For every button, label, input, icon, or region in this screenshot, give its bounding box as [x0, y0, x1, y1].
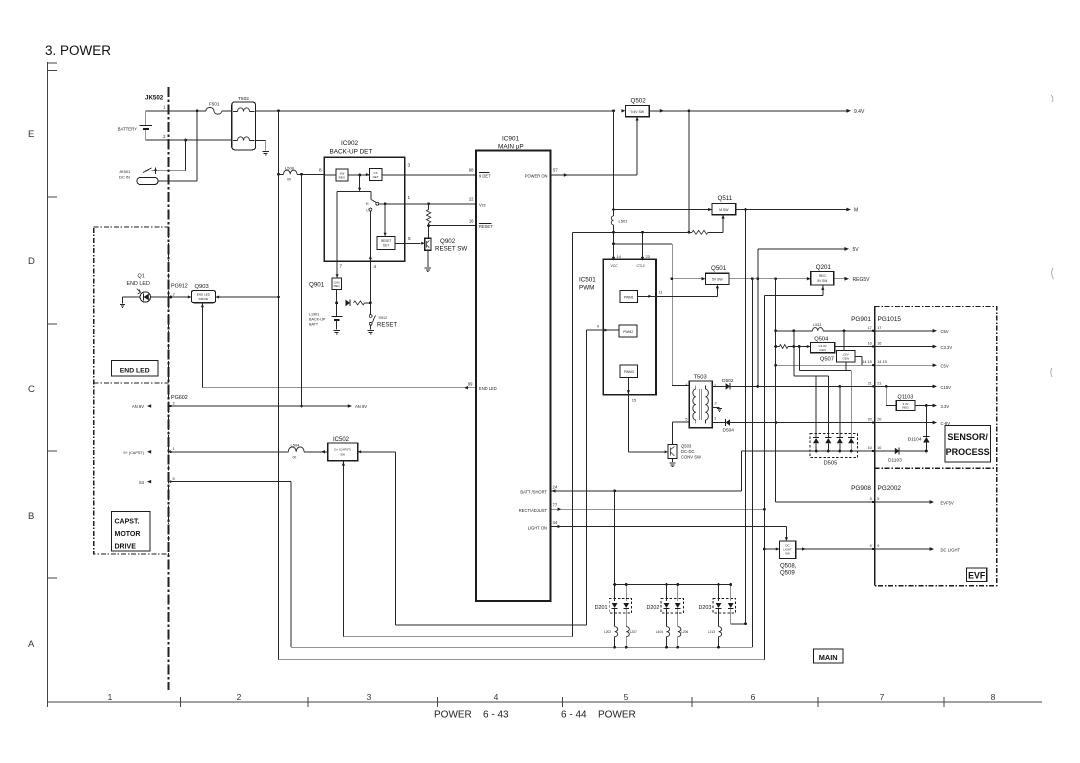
- svg-text:Q511: Q511: [718, 195, 733, 202]
- svg-text:DET: DET: [383, 244, 389, 248]
- svg-text:Q508,: Q508,: [780, 564, 797, 570]
- svg-text:SENSOR/: SENSOR/: [947, 432, 988, 442]
- svg-text:S4: S4: [139, 480, 145, 485]
- svg-text:9 DET: 9 DET: [479, 173, 491, 178]
- svg-text:D: D: [28, 256, 35, 267]
- svg-text:PWM1: PWM1: [624, 295, 634, 299]
- svg-text:1: 1: [108, 692, 113, 702]
- svg-text:5: 5: [173, 476, 175, 481]
- svg-text:2: 2: [715, 401, 717, 406]
- svg-text:EVF: EVF: [968, 571, 986, 581]
- svg-text:D202: D202: [647, 605, 660, 611]
- svg-text:10: 10: [868, 446, 872, 450]
- svg-text:C: C: [28, 384, 35, 395]
- svg-text:E: E: [28, 129, 34, 140]
- svg-text:BATTERY: BATTERY: [118, 127, 138, 132]
- svg-text:9.4V SW: 9.4V SW: [631, 110, 645, 114]
- svg-text:L511: L511: [813, 322, 822, 327]
- svg-text:5: 5: [685, 417, 687, 422]
- svg-text:PG912: PG912: [171, 284, 188, 290]
- svg-text:16: 16: [877, 342, 881, 346]
- svg-text:END LED: END LED: [197, 293, 211, 297]
- svg-text:00: 00: [287, 178, 291, 182]
- svg-text:END LED: END LED: [127, 281, 150, 287]
- svg-text:MOTOR: MOTOR: [115, 531, 141, 538]
- svg-text:5: 5: [624, 692, 629, 702]
- svg-text:PG1015: PG1015: [878, 316, 902, 323]
- svg-text:JK501: JK501: [119, 169, 131, 174]
- svg-text:END LED: END LED: [479, 386, 497, 391]
- svg-text:M SW: M SW: [719, 208, 729, 212]
- svg-text:10: 10: [877, 446, 881, 450]
- svg-text:CONV SW: CONV SW: [681, 455, 701, 460]
- svg-text:2: 2: [173, 401, 175, 406]
- svg-text:T502: T502: [238, 96, 249, 102]
- svg-text:24: 24: [553, 485, 558, 490]
- svg-text:20: 20: [877, 418, 881, 422]
- svg-text:SW: SW: [340, 453, 345, 457]
- svg-text:23: 23: [646, 254, 650, 259]
- svg-text:PG908: PG908: [851, 485, 871, 492]
- svg-text:POWER ON: POWER ON: [525, 173, 548, 178]
- svg-text:Q509: Q509: [780, 571, 795, 577]
- svg-text:DC LIGHT: DC LIGHT: [941, 547, 961, 552]
- svg-text:DRIVE: DRIVE: [115, 544, 137, 551]
- svg-text:B: B: [28, 511, 34, 522]
- svg-text:5V SW: 5V SW: [712, 278, 723, 282]
- svg-text:6 - 44: 6 - 44: [561, 710, 587, 721]
- svg-text:MAIN: MAIN: [819, 653, 838, 662]
- svg-text:GEN: GEN: [819, 348, 826, 352]
- svg-text:6: 6: [751, 692, 756, 702]
- svg-text:C-8V: C-8V: [941, 421, 951, 426]
- svg-text:D201: D201: [595, 605, 608, 611]
- svg-text:C5V: C5V: [941, 329, 949, 334]
- svg-text:BATT: BATT: [309, 323, 319, 327]
- svg-text:L207: L207: [630, 630, 637, 634]
- svg-text:D504: D504: [723, 428, 735, 434]
- svg-text:PWM3: PWM3: [624, 370, 634, 374]
- svg-text:Vcc: Vcc: [479, 202, 486, 207]
- svg-text:T503: T503: [694, 375, 707, 381]
- svg-text:L508: L508: [285, 166, 295, 171]
- svg-text:6 - 43: 6 - 43: [483, 710, 509, 721]
- svg-text:REG: REG: [334, 284, 340, 288]
- svg-text:S912: S912: [379, 316, 388, 320]
- svg-text:REG: REG: [819, 274, 826, 278]
- svg-text:JK502: JK502: [145, 95, 164, 102]
- svg-text:5: 5: [870, 497, 872, 501]
- svg-text:DC IN: DC IN: [119, 175, 130, 180]
- svg-text:9: 9: [877, 544, 879, 548]
- svg-text:D1103: D1103: [888, 458, 902, 464]
- svg-text:PWM: PWM: [579, 285, 594, 292]
- svg-text:Q201: Q201: [816, 264, 832, 271]
- svg-text:Q902: Q902: [440, 238, 456, 245]
- svg-text:Q903: Q903: [195, 284, 209, 290]
- svg-text:9: 9: [870, 544, 872, 548]
- svg-text:PG2002: PG2002: [878, 485, 902, 492]
- svg-text:RESET: RESET: [381, 239, 392, 243]
- svg-text:C3.3V: C3.3V: [941, 345, 953, 350]
- svg-text:L501: L501: [619, 219, 629, 224]
- svg-text:CAPST.: CAPST.: [115, 519, 140, 526]
- svg-text:9.4V: 9.4V: [854, 109, 865, 115]
- svg-text:Q1103: Q1103: [898, 394, 914, 400]
- svg-text:DRIVE: DRIVE: [199, 297, 208, 301]
- svg-text:L213: L213: [708, 630, 715, 634]
- svg-text:5: 5: [877, 497, 879, 501]
- svg-text:IC502: IC502: [333, 437, 350, 443]
- svg-text:Q504: Q504: [814, 336, 829, 342]
- svg-text:Q901: Q901: [309, 282, 325, 289]
- svg-text:16: 16: [469, 219, 474, 224]
- svg-text:CTL2: CTL2: [637, 264, 645, 268]
- svg-text:REG: REG: [339, 176, 346, 180]
- svg-text:AN 6V: AN 6V: [355, 404, 367, 409]
- svg-text:4: 4: [374, 264, 377, 269]
- svg-text:7: 7: [880, 692, 885, 702]
- svg-text:D505: D505: [824, 461, 838, 467]
- svg-text:D203: D203: [699, 605, 712, 611]
- svg-text:REG: REG: [902, 406, 909, 410]
- svg-text:C15V: C15V: [941, 385, 952, 390]
- svg-text:22: 22: [469, 197, 474, 202]
- svg-text:1: 1: [173, 446, 175, 451]
- svg-text:20: 20: [868, 418, 872, 422]
- svg-text:IC501: IC501: [579, 277, 596, 284]
- svg-text:14 15: 14 15: [877, 360, 887, 364]
- svg-text:15: 15: [632, 398, 636, 403]
- svg-text:DC-DC: DC-DC: [681, 449, 695, 454]
- svg-text:RESET SW: RESET SW: [435, 246, 467, 253]
- svg-text:3: 3: [408, 163, 411, 168]
- svg-text:PG901: PG901: [851, 316, 871, 323]
- svg-text:DET: DET: [373, 175, 379, 179]
- svg-text:2: 2: [173, 292, 175, 297]
- svg-text:1: 1: [714, 416, 716, 421]
- svg-text:MAIN µP: MAIN µP: [498, 144, 524, 151]
- svg-text:PWM2: PWM2: [623, 330, 633, 334]
- svg-text:SW: SW: [785, 552, 790, 556]
- svg-text:REG5V: REG5V: [853, 277, 871, 283]
- svg-text:D1104: D1104: [908, 437, 922, 443]
- svg-text:Q502: Q502: [631, 97, 647, 104]
- svg-text:BATT /SHORT: BATT /SHORT: [520, 490, 547, 495]
- svg-text:5: 5: [408, 236, 411, 241]
- svg-text:AN 6V: AN 6V: [132, 404, 144, 409]
- svg-text:M: M: [854, 208, 858, 214]
- svg-text:RECT/ADJUST: RECT/ADJUST: [519, 508, 548, 513]
- svg-text:F501: F501: [209, 102, 220, 107]
- svg-text:D+ (CAPST): D+ (CAPST): [334, 448, 351, 452]
- svg-text:21: 21: [868, 381, 872, 385]
- svg-text:C5V: C5V: [941, 364, 949, 369]
- svg-text:3. POWER: 3. POWER: [45, 43, 111, 58]
- svg-text:5V: 5V: [853, 247, 860, 253]
- svg-text:PROCESS: PROCESS: [946, 447, 990, 457]
- svg-text:Q1: Q1: [138, 274, 145, 280]
- svg-text:Q501: Q501: [711, 265, 727, 272]
- svg-text:POWER: POWER: [598, 710, 636, 721]
- svg-text:EVF5V: EVF5V: [941, 500, 954, 505]
- svg-text:5V SW: 5V SW: [817, 279, 827, 283]
- svg-text:14 15: 14 15: [862, 360, 872, 364]
- svg-text:BACK-UP DET: BACK-UP DET: [330, 149, 373, 156]
- svg-text:L404: L404: [656, 630, 663, 634]
- svg-text:IC901: IC901: [502, 136, 519, 143]
- svg-text:RESET: RESET: [479, 224, 493, 229]
- svg-text:L1901: L1901: [309, 313, 319, 317]
- svg-text:00: 00: [293, 456, 297, 460]
- svg-text:POWER: POWER: [434, 710, 472, 721]
- svg-text:L504: L504: [291, 443, 301, 448]
- svg-text:8: 8: [319, 168, 322, 173]
- svg-text:2: 2: [237, 692, 242, 702]
- svg-text:RESET: RESET: [377, 323, 397, 329]
- svg-text:VCC: VCC: [611, 264, 619, 268]
- svg-text:99: 99: [468, 382, 473, 387]
- svg-text:1: 1: [408, 195, 411, 200]
- svg-text:L202: L202: [604, 630, 611, 634]
- svg-text:68: 68: [469, 168, 474, 173]
- svg-text:16: 16: [868, 342, 872, 346]
- svg-text:57: 57: [553, 168, 558, 173]
- svg-text:3.3V: 3.3V: [941, 404, 950, 409]
- svg-text:GEN: GEN: [843, 356, 850, 360]
- svg-text:Q507: Q507: [820, 357, 834, 363]
- svg-text:D502: D502: [722, 378, 734, 384]
- svg-text:9: 9: [597, 324, 599, 329]
- svg-text:L206: L206: [681, 630, 688, 634]
- svg-text:IC902: IC902: [341, 140, 358, 147]
- svg-text:9+ (CAPST): 9+ (CAPST): [123, 451, 144, 455]
- svg-text:H: H: [366, 202, 369, 206]
- svg-text:21: 21: [877, 381, 881, 385]
- svg-text:8: 8: [991, 692, 996, 702]
- svg-text:BACK-UP: BACK-UP: [309, 318, 326, 322]
- svg-text:A: A: [28, 639, 35, 650]
- svg-text:Q503: Q503: [681, 444, 692, 449]
- svg-text:11: 11: [659, 290, 663, 295]
- svg-text:17: 17: [877, 326, 881, 330]
- svg-text:L: L: [366, 208, 368, 212]
- svg-text:3: 3: [714, 383, 716, 388]
- svg-text:4: 4: [494, 692, 499, 702]
- svg-text:44: 44: [553, 520, 558, 525]
- svg-text:LIGHT ON: LIGHT ON: [528, 525, 547, 530]
- svg-text:L7: L7: [868, 326, 872, 330]
- svg-text:END LED: END LED: [120, 367, 150, 374]
- svg-text:77: 77: [553, 503, 558, 508]
- svg-text:3: 3: [367, 692, 372, 702]
- svg-text:7: 7: [340, 264, 343, 269]
